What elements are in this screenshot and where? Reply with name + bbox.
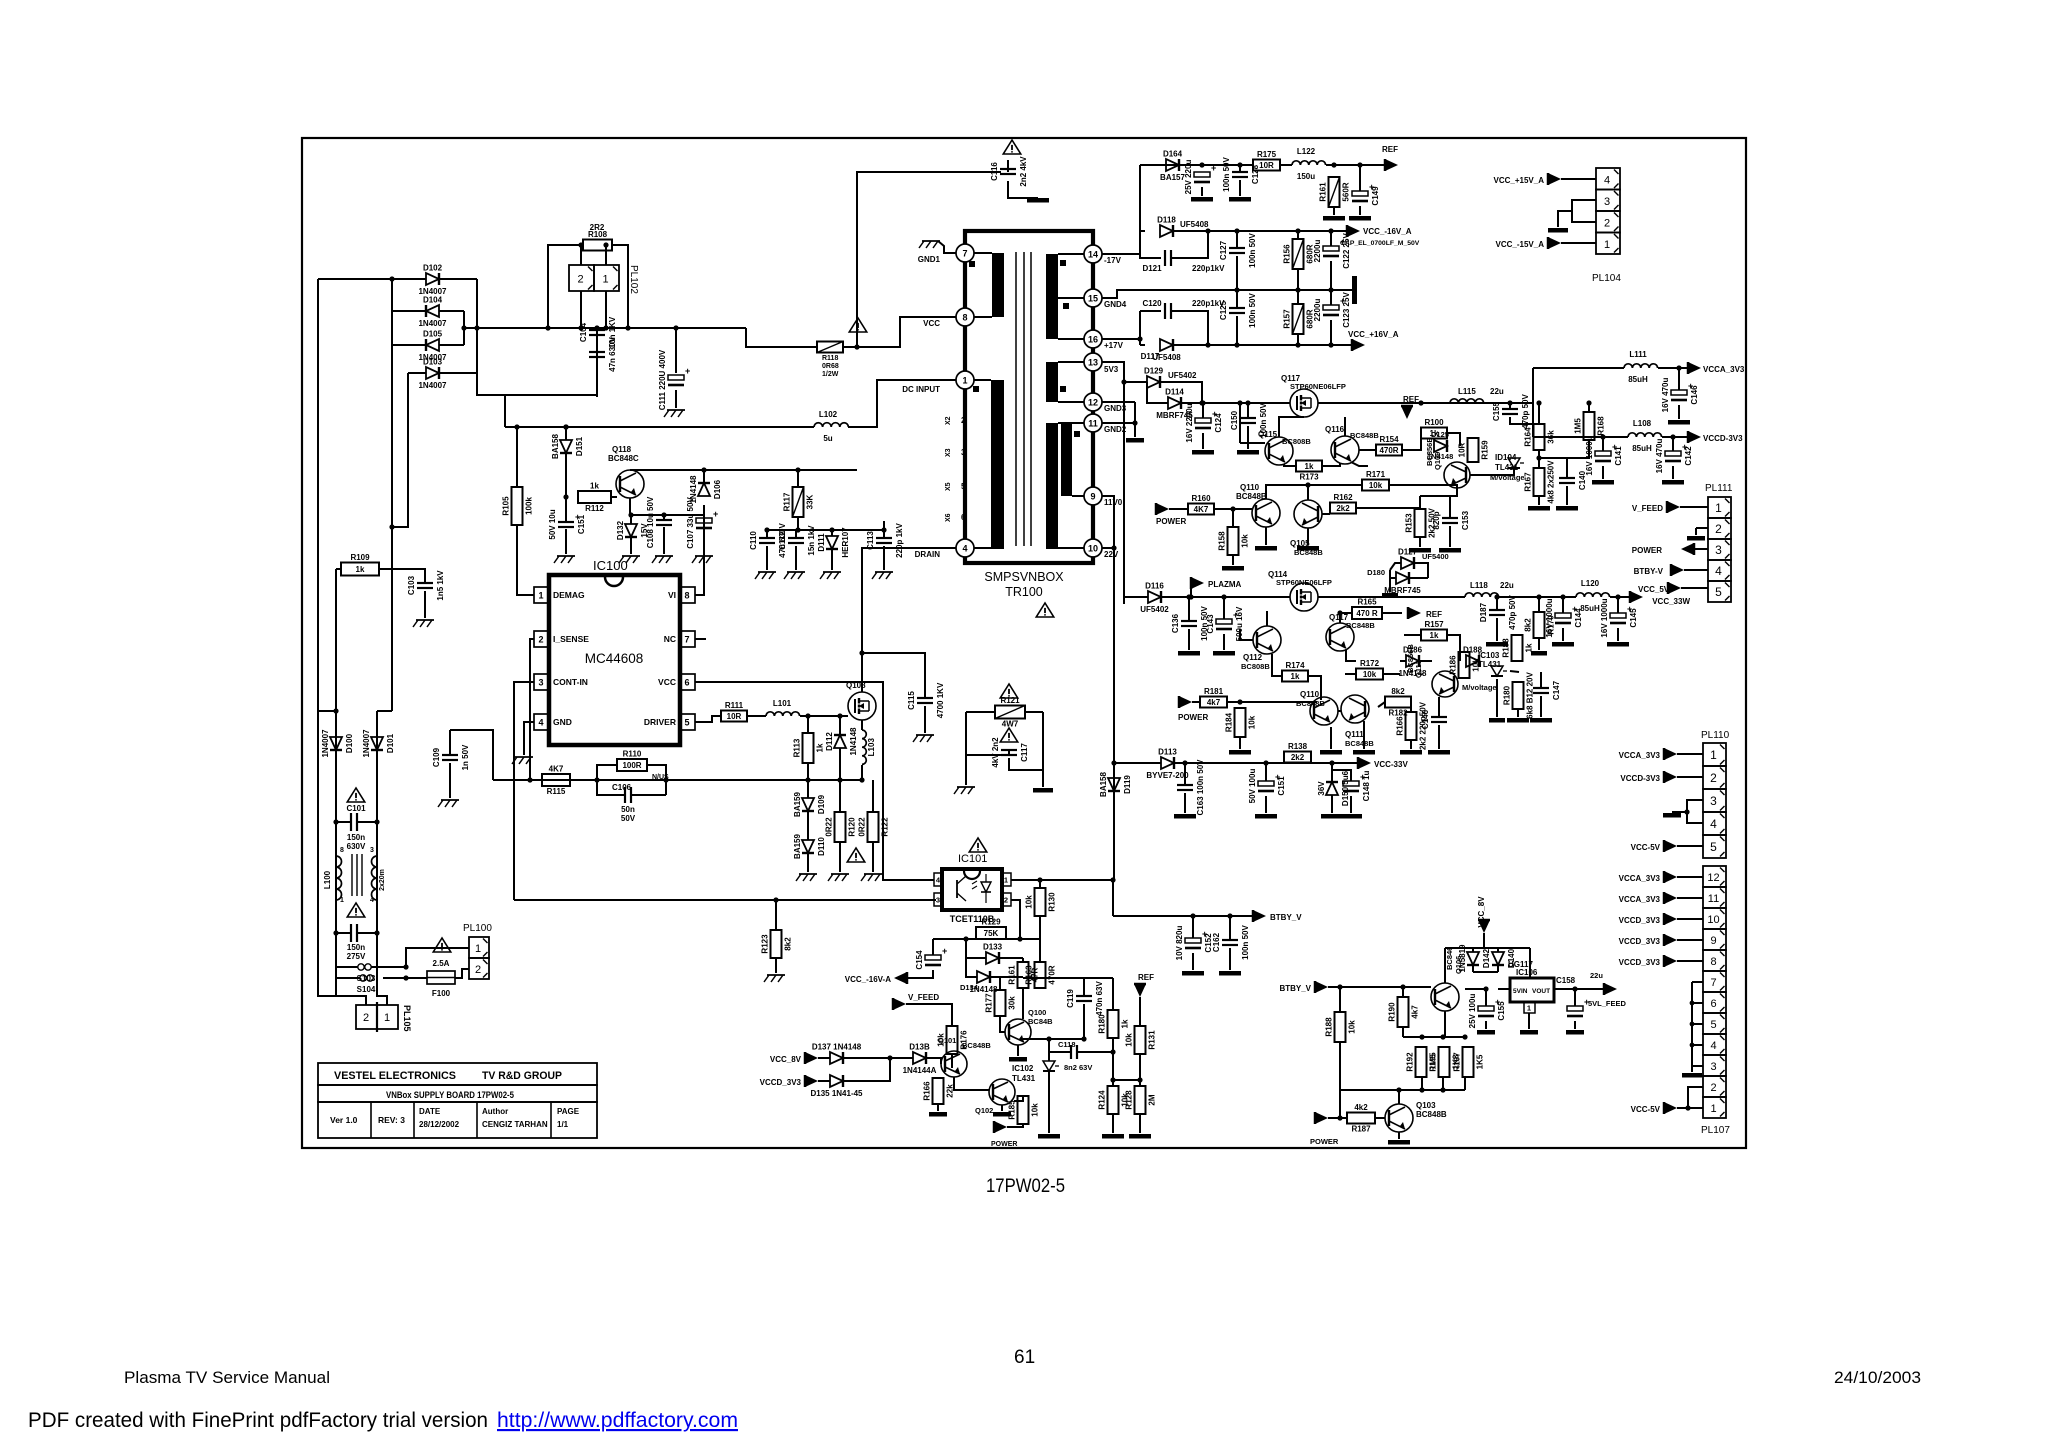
svg-text:D151: D151 <box>575 436 584 456</box>
warning triangle above R118 <box>849 318 867 332</box>
wire C163 stem <box>1184 763 1186 785</box>
wire pl107 pin12 <box>1677 876 1703 878</box>
svg-text:13: 13 <box>1088 358 1098 368</box>
svg-text:1: 1 <box>538 591 543 601</box>
capacitor C101 150n 630V <box>351 813 357 831</box>
wire R166b stems <box>1410 702 1412 712</box>
svg-text:1: 1 <box>340 897 344 904</box>
svg-text:3: 3 <box>1710 1061 1716 1073</box>
ground bar PL110 <box>1663 813 1681 818</box>
resistor R157 680R <box>1283 304 1315 334</box>
junction R108 right <box>625 325 630 330</box>
svg-text:8k2: 8k2 <box>784 937 793 951</box>
svg-text:10R: 10R <box>727 712 742 721</box>
svg-text:L118: L118 <box>1470 581 1488 590</box>
label C101 <box>346 804 366 813</box>
svg-text:R161: R161 <box>1008 965 1017 985</box>
svg-text:ID104: ID104 <box>1495 453 1517 462</box>
wire R157 stems <box>1297 290 1299 304</box>
svg-text:R186: R186 <box>1449 655 1458 675</box>
connector PL102 pin1 <box>594 265 639 294</box>
optocoupler internals <box>981 882 991 892</box>
wire C104 to DC-input rail <box>504 395 506 427</box>
svg-text:220p 1kV: 220p 1kV <box>895 522 904 557</box>
svg-text:4: 4 <box>1604 174 1610 186</box>
wire power right row <box>1328 1117 1347 1119</box>
svg-text:0R68: 0R68 <box>822 363 839 370</box>
diode D114 MBRF745 <box>1156 388 1193 421</box>
transistor Q110 BC848B <box>1252 499 1280 527</box>
svg-text:1n 50V: 1n 50V <box>461 744 470 770</box>
wire C136 gnd <box>1188 629 1190 650</box>
wire C125 stem <box>1236 290 1238 308</box>
svg-text:100R: 100R <box>622 761 641 770</box>
junction snub 832 <box>829 527 834 532</box>
capacitor C143 500u 16V <box>1206 606 1244 641</box>
wire d137 out <box>843 1057 890 1059</box>
wire pin11 GND2 <box>1102 422 1135 424</box>
wire R100 right <box>1447 433 1460 446</box>
svg-text:6: 6 <box>684 678 689 688</box>
wire pl110 pin5 <box>1677 845 1703 847</box>
junction bot row b <box>1419 1087 1424 1092</box>
wire R158 gnd <box>1232 555 1234 565</box>
wire D104 row <box>392 310 426 312</box>
svg-text:R131: R131 <box>1148 1030 1157 1050</box>
label L101 <box>773 699 792 708</box>
svg-text:D105: D105 <box>423 330 443 339</box>
label Q111 BC848B <box>1345 730 1374 748</box>
net arrow VCC_-16V_A <box>1347 225 1412 237</box>
wire PL104 pin3-2 loop <box>1572 200 1596 222</box>
svg-text:VCCA_3V3: VCCA_3V3 <box>1619 895 1661 904</box>
svg-text:75K: 75K <box>984 929 999 938</box>
svg-text:4: 4 <box>1710 817 1717 831</box>
wire C155 link2 <box>1510 417 1539 424</box>
svg-text:BA157: BA157 <box>1160 173 1185 182</box>
resistor R117 33K <box>783 487 815 517</box>
wire doubler vertical x392 <box>391 279 393 711</box>
wire R156 stems <box>1297 231 1299 239</box>
wire R167 gnd <box>1538 496 1540 505</box>
junction pin16 loop <box>1137 336 1142 341</box>
diode D104 1N4007 <box>418 296 447 329</box>
svg-text:DRAIN: DRAIN <box>915 550 941 559</box>
wire L102 to pin1 <box>848 380 956 427</box>
junction gate R113 <box>805 713 810 718</box>
wire plazma stub <box>1190 589 1192 597</box>
svg-text:24/10/2003: 24/10/2003 <box>1834 1368 1921 1387</box>
wire Q111a emitter gnd <box>1330 727 1332 749</box>
svg-text:12: 12 <box>1707 872 1719 884</box>
chassis ground under D111 <box>820 572 841 579</box>
wire R154 out <box>1402 433 1421 450</box>
resistor R186 10k <box>1449 652 1481 678</box>
wire R113 stem2 <box>807 763 809 780</box>
wire Q119 collector <box>1339 611 1341 623</box>
IC100 pin 1 DEMAG <box>534 587 585 603</box>
svg-text:R185: R185 <box>1008 1100 1017 1120</box>
wire ref takeoff <box>1139 165 1141 254</box>
ground bar under C158 <box>1566 1030 1584 1035</box>
wire R113 stems <box>807 716 809 733</box>
IC100 pin 2 I_SENSE <box>534 631 589 647</box>
svg-text:+: + <box>713 509 718 519</box>
label IC102 TL431 <box>1012 1064 1036 1083</box>
junction C155b <box>1483 986 1488 991</box>
net arrow VCC_+16V_A <box>1352 339 1365 351</box>
junction C127 top <box>1234 228 1239 233</box>
label VCCD_3V3 inject <box>760 1078 802 1087</box>
wire C107 gnd <box>703 533 705 554</box>
wire Q106 emitter <box>1444 1011 1446 1037</box>
diode D151 BA158 <box>551 434 584 459</box>
wire D111 gnd <box>831 549 833 570</box>
wire Q112 base <box>1240 629 1253 640</box>
svg-text:BC848B: BC848B <box>962 1041 991 1050</box>
label IC103 TL431 <box>1462 651 1502 692</box>
wire R188 stem <box>1339 987 1341 1012</box>
capacitor C106 50n 50V <box>625 787 631 803</box>
label UF5408 D118 <box>1180 220 1209 229</box>
svg-text:150n: 150n <box>347 833 365 842</box>
spark gap S104 <box>336 977 348 979</box>
svg-text:VI: VI <box>668 590 676 600</box>
svg-text:+: + <box>685 366 690 376</box>
diode D101 1N4007 <box>362 729 395 758</box>
resistor R184 10k <box>1225 708 1257 737</box>
ground bar under C140 <box>1556 506 1578 511</box>
svg-text:50V 10u: 50V 10u <box>548 509 557 539</box>
connector PL102 <box>569 265 594 291</box>
capacitor C116 2n2 4kV <box>990 156 1028 187</box>
wire C141 gnd <box>1602 466 1604 479</box>
svg-text:R129: R129 <box>981 918 1001 927</box>
svg-text:I_SENSE: I_SENSE <box>553 634 589 644</box>
junction 5v vert <box>1121 379 1126 384</box>
resistor R180c 1k <box>1098 1010 1130 1038</box>
label POWER 3v3 <box>1156 517 1186 526</box>
wire D105 row <box>392 344 426 346</box>
resistor R111 10R <box>721 701 747 722</box>
capacitor C107 33u 50V <box>686 497 718 549</box>
net arrow VCC_33V <box>1358 757 1408 769</box>
wire C143 gnd <box>1223 634 1225 650</box>
svg-text:15: 15 <box>1088 294 1098 304</box>
transistor Q114 STP60NE06LFP <box>1290 583 1318 611</box>
svg-text:REV: 3: REV: 3 <box>378 1115 405 1125</box>
wire C152 gnd <box>1192 953 1194 970</box>
warning triangle above C101 <box>347 788 365 802</box>
junction gnd23 <box>1132 420 1137 425</box>
svg-text:R120: R120 <box>848 817 857 837</box>
wire Q103 collector <box>1398 1090 1400 1104</box>
transformer pin 11 GND2 <box>1084 414 1127 434</box>
svg-text:1N4007: 1N4007 <box>418 381 447 390</box>
wire feedback bus <box>514 899 936 901</box>
svg-text:470R: 470R <box>1048 965 1057 984</box>
svg-text:D114: D114 <box>1165 388 1184 397</box>
junction bus R113 <box>805 777 810 782</box>
svg-text:150u: 150u <box>1297 172 1315 181</box>
svg-text:D112: D112 <box>825 732 834 751</box>
capacitor C109 1n 50V <box>432 744 470 770</box>
svg-text:C141: C141 <box>1614 446 1623 466</box>
wire snub leg2 <box>839 780 841 812</box>
svg-text:D133: D133 <box>983 943 1003 952</box>
svg-text:D134: D134 <box>960 983 979 992</box>
svg-text:3: 3 <box>936 896 940 905</box>
wire R161 gnd <box>1333 207 1335 215</box>
junction C142 <box>1670 434 1675 439</box>
capacitor C121 220p 1kV <box>1165 250 1171 266</box>
net arrow VCC_-16V-A fb <box>894 972 907 984</box>
svg-text:D101: D101 <box>386 733 395 753</box>
IC101 pin 2 box <box>1002 893 1011 906</box>
junction C158 top <box>1572 986 1577 991</box>
ground bar under Q111a <box>1320 750 1342 755</box>
diode D116 UF5402 <box>1140 582 1169 615</box>
svg-text:Q110: Q110 <box>1300 690 1320 699</box>
svg-text:POWER: POWER <box>1156 517 1186 526</box>
svg-text:VOUT: VOUT <box>1532 988 1550 995</box>
svg-text:R157: R157 <box>1283 309 1292 329</box>
wire emitter row <box>1403 1036 1465 1038</box>
svg-text:100n 50V: 100n 50V <box>1248 232 1257 267</box>
svg-text:VCC_+15V_A: VCC_+15V_A <box>1494 176 1545 185</box>
wire q113 base row <box>1378 702 1385 707</box>
wire R110 loop2 <box>647 765 666 795</box>
resistor R112 1k <box>578 482 611 514</box>
svg-text:1: 1 <box>1710 748 1717 762</box>
chassis ground left of pin 7 <box>919 241 940 248</box>
wire C128 stem <box>1239 165 1241 172</box>
transformer label SMPSVNBOX TR100 <box>984 570 1064 599</box>
resistor R100 1k <box>1421 418 1447 439</box>
svg-text:17PW02-5: 17PW02-5 <box>986 1176 1065 1197</box>
wire C123 down <box>1330 320 1332 345</box>
junction pl110 gnd <box>1684 809 1689 814</box>
svg-text:D103: D103 <box>423 358 443 367</box>
wire left vertical rail <box>317 279 319 711</box>
svg-text:TL431: TL431 <box>1012 1074 1036 1083</box>
wire D142 stems <box>1472 948 1474 952</box>
junction C125 bot <box>1234 342 1239 347</box>
wire snubber top rail <box>767 529 884 531</box>
svg-text:10R: 10R <box>1259 161 1274 170</box>
svg-text:+17V: +17V <box>1104 341 1124 350</box>
footer text Plasma TV Service Manual <box>124 1368 330 1387</box>
net arrow VCCA_3V3 pl107 pin12 <box>1664 871 1677 883</box>
wire R165 out <box>1382 612 1402 614</box>
connector PL100 <box>463 923 492 979</box>
wire R181 out <box>1227 701 1317 703</box>
svg-text:2x20m: 2x20m <box>379 869 386 891</box>
junction R165 Q119 <box>1337 610 1342 615</box>
wire C151b gnd <box>1265 796 1267 813</box>
svg-text:Q118: Q118 <box>612 445 632 454</box>
inductor L115 22u <box>1450 399 1484 403</box>
svg-text:C104: C104 <box>579 322 588 342</box>
wire btby drop <box>1112 880 1114 916</box>
net arrow V_FEED left <box>893 998 906 1010</box>
transformer pin 15 GND4 <box>1084 289 1127 309</box>
wire Q105 collector <box>1307 485 1309 500</box>
junction C151b top <box>1263 760 1268 765</box>
svg-text:D150 5u6: D150 5u6 <box>1341 770 1350 806</box>
resistor R130 10k <box>1025 888 1057 916</box>
wire C154 stem <box>932 939 934 955</box>
svg-text:3: 3 <box>1710 794 1717 808</box>
wire C146 stem <box>1678 368 1680 390</box>
wire d136 out <box>843 1058 890 1081</box>
resistor R105 100k <box>502 487 534 525</box>
pdfFactory footer line <box>28 1408 738 1432</box>
wire C153 gnd <box>1449 526 1451 547</box>
svg-text:R192: R192 <box>1406 1052 1415 1072</box>
chassis ground under R120 <box>828 874 849 881</box>
net arrow BTBY_V right <box>1315 981 1328 993</box>
svg-text:PL110: PL110 <box>1701 730 1730 741</box>
wire R197 bot <box>1464 1077 1466 1090</box>
svg-text:275V: 275V <box>347 952 366 961</box>
wire D112 stems <box>839 716 841 735</box>
wire R110 loop4 <box>631 794 666 796</box>
svg-text:GND: GND <box>553 717 572 727</box>
capacitor C128 100n 50V <box>1222 156 1260 191</box>
junction rail DC a <box>563 424 568 429</box>
svg-text:DC INPUT: DC INPUT <box>902 385 940 394</box>
svg-text:C122 25V: C122 25V <box>1342 233 1351 269</box>
junction PL102 c <box>578 325 583 330</box>
wire R170 bot <box>1538 638 1540 650</box>
wire pin16 to loop <box>1102 338 1140 340</box>
junction C104 top <box>594 325 599 330</box>
svg-text:POWER: POWER <box>991 1141 1017 1148</box>
connector PL110 <box>1701 730 1730 858</box>
resistor R115 4k7 <box>542 765 570 797</box>
svg-text:16V 1000u: 16V 1000u <box>1585 436 1594 475</box>
junction bus 477 <box>474 325 479 330</box>
junction spark row2 <box>403 975 408 980</box>
wire C129 gnd <box>1201 187 1203 196</box>
chassis ground under R123 <box>764 975 785 982</box>
svg-text:C106: C106 <box>612 783 632 792</box>
junction C141 <box>1600 434 1605 439</box>
resistor R129 75K <box>976 918 1006 940</box>
wire IC101 pin1 rail <box>1011 879 1113 881</box>
wire DC input rail <box>505 426 814 428</box>
svg-text:1k: 1k <box>356 565 365 574</box>
svg-text:C154: C154 <box>915 950 924 970</box>
svg-text:C158: C158 <box>1556 976 1576 985</box>
net arrow VCCD_3V3 pl107 pin10 <box>1664 913 1677 925</box>
wire R109 left <box>336 568 341 570</box>
diode D127 UF5400 <box>1398 548 1418 570</box>
svg-text:C147: C147 <box>1552 680 1561 700</box>
wire R122 gnd <box>872 842 874 872</box>
wire fuse to PL100 pin2 <box>455 969 469 978</box>
diode D137 1N4148 <box>812 1043 862 1065</box>
wire Q115 base <box>1240 442 1265 444</box>
IC101 pin 1 box <box>1002 873 1011 886</box>
diode D113 BYV27-200 <box>1146 748 1189 781</box>
junction e row b <box>1440 1034 1445 1039</box>
wire R170 top <box>1538 597 1540 612</box>
capacitor C120 220p 1kV <box>1165 303 1171 319</box>
junction PLAZMA <box>1188 594 1193 599</box>
svg-text:85uH: 85uH <box>1628 375 1648 384</box>
chassis ground IC100 pin4 <box>512 757 533 764</box>
label Q116 BC848B <box>1325 425 1379 440</box>
label REF down <box>1138 973 1154 982</box>
wire L103 to bus <box>861 765 863 780</box>
svg-text:C115: C115 <box>907 691 916 710</box>
capacitor C151 10u 50V <box>548 509 586 539</box>
warning triangle near R120 <box>847 848 865 862</box>
svg-text:1k: 1k <box>1121 1019 1130 1028</box>
wire C112 gnd <box>795 546 797 570</box>
svg-text:L115: L115 <box>1458 387 1476 396</box>
svg-text:2: 2 <box>1710 771 1717 785</box>
wire R176 down <box>951 1054 953 1068</box>
label Q118 BC848C <box>608 445 639 463</box>
svg-text:1N4007: 1N4007 <box>418 319 447 328</box>
wire C102 link <box>336 932 351 934</box>
svg-text:R177: R177 <box>985 993 994 1013</box>
wire C155b stem <box>1485 989 1487 1006</box>
svg-text:R167: R167 <box>1524 472 1533 492</box>
svg-text:D117: D117 <box>1141 352 1160 361</box>
net arrow REF down <box>1134 984 1146 997</box>
svg-text:5: 5 <box>1710 1019 1716 1031</box>
svg-text:POWER: POWER <box>1310 1137 1339 1146</box>
svg-text:1: 1 <box>1715 501 1722 515</box>
svg-text:F100: F100 <box>432 989 451 998</box>
resistor R128 2M <box>1125 1086 1157 1114</box>
svg-text:VCC-33V: VCC-33V <box>1374 760 1408 769</box>
label D134 <box>960 983 979 992</box>
wire d137 row <box>818 1057 830 1059</box>
svg-text:R190: R190 <box>1388 1002 1397 1022</box>
ground bar under C147 <box>1530 718 1552 723</box>
svg-text:8: 8 <box>340 847 344 854</box>
svg-text:PDF created with FinePrint pdf: PDF created with FinePrint pdfFactory tr… <box>28 1408 488 1432</box>
resistor R113 1k <box>793 733 825 763</box>
inductor L101 <box>766 712 800 716</box>
capacitor C149 10u 50V <box>1352 182 1380 206</box>
label IC101 <box>958 853 987 865</box>
transformer pin 10 22V <box>1084 539 1119 559</box>
ground bar under Q103 <box>1388 1140 1410 1145</box>
wire Q115 e to R173 <box>1284 464 1296 466</box>
wire C116 to gnd <box>1008 181 1038 198</box>
resistor R192 1M5 <box>1406 1047 1438 1077</box>
wire mains rail x336 <box>335 569 337 852</box>
wire D151 top <box>565 427 567 440</box>
junction R108 left <box>545 325 550 330</box>
chassis ground under C111 <box>664 410 685 417</box>
junction C123 bot <box>1328 342 1333 347</box>
wire R171 out <box>1389 485 1457 488</box>
wire L100 down left <box>335 898 337 967</box>
chassis ground under C107 <box>692 556 713 563</box>
svg-text:DATE: DATE <box>419 1107 441 1116</box>
svg-text:4: 4 <box>538 718 543 728</box>
wire C150 stem <box>1247 403 1249 418</box>
wire C128 gnd <box>1239 180 1241 196</box>
wire Q110 emitter gnd <box>1265 527 1267 545</box>
